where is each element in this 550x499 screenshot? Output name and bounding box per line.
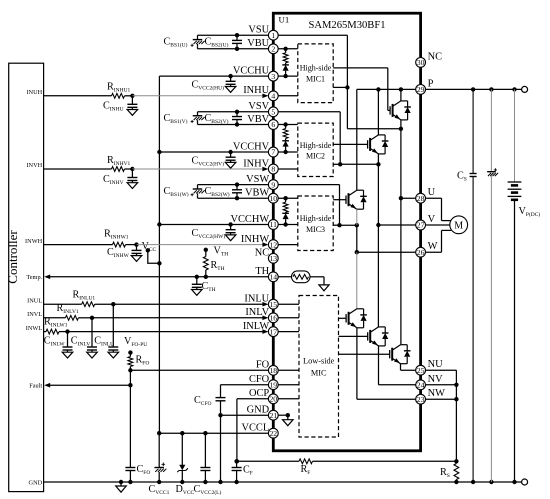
wire FO line bbox=[128, 368, 273, 372]
wire VSU rail bbox=[198, 35, 274, 39]
wire INLU stub into low-side MIC bbox=[273, 303, 299, 305]
pin 10 VBW bbox=[245, 188, 278, 204]
wire VBW rail bbox=[198, 196, 274, 199]
svg-text:INUL: INUL bbox=[27, 297, 42, 304]
pin 24 NV bbox=[416, 374, 443, 390]
svg-text:VBU: VBU bbox=[247, 38, 269, 49]
wire U emitter to pin28 bbox=[399, 120, 421, 345]
wire VBV rail bbox=[198, 122, 274, 124]
resistor R_TH pull-up bbox=[203, 250, 208, 279]
wire OCP line pin20 bbox=[235, 399, 274, 464]
wire VCC vertical rail bbox=[158, 76, 160, 433]
pin 19 CFO bbox=[249, 374, 278, 390]
svg-text:INLV: INLV bbox=[245, 307, 269, 318]
svg-text:INHV: INHV bbox=[243, 158, 269, 169]
svg-text:VSV: VSV bbox=[248, 101, 269, 112]
pin 27 V bbox=[416, 214, 436, 230]
capacitor C_BS2(U) bootstrap bbox=[232, 33, 242, 51]
label C_INLU bbox=[94, 336, 114, 348]
controller GND label bbox=[29, 479, 43, 486]
svg-text:OCP: OCP bbox=[249, 388, 269, 399]
battery V_P(DC) bbox=[508, 89, 522, 482]
svg-text:VCCHV: VCCHV bbox=[233, 141, 270, 152]
low-side driver MIC box bbox=[299, 296, 339, 438]
capacitor C_FO bbox=[125, 385, 135, 482]
wire MIC1 gate drive bbox=[333, 68, 390, 111]
wire INHU stub into MIC1 bbox=[273, 95, 298, 97]
wire NV emitter to pin24 bbox=[379, 346, 421, 385]
wire VCCHW line bbox=[157, 222, 273, 226]
pin 13 NC bbox=[255, 248, 278, 264]
svg-text:NW: NW bbox=[428, 388, 446, 399]
label R_INLU1 bbox=[73, 290, 96, 302]
svg-text:8: 8 bbox=[271, 165, 275, 174]
svg-text:25: 25 bbox=[417, 366, 425, 375]
wire NV line external bbox=[421, 384, 457, 386]
capacitor electrolytic bulk bbox=[487, 89, 498, 482]
power flag V_TH bbox=[204, 246, 229, 258]
wire CFO stub into low-side MIC bbox=[273, 384, 299, 386]
pin 20 OCP bbox=[249, 388, 278, 404]
label C_BS2(W) bbox=[205, 186, 230, 198]
pin 29 P bbox=[416, 78, 434, 94]
ground symbol at GND rail bbox=[116, 482, 127, 492]
wire VBU rail bbox=[198, 46, 274, 49]
resistor R_INLU1 with wire INLU bbox=[44, 302, 269, 307]
capacitor C_INLU filter bbox=[108, 304, 119, 358]
wire INHW stub into MIC3 bbox=[273, 244, 298, 246]
wire NU emitter to pin25 bbox=[401, 364, 421, 371]
wire INHV stub into MIC2 bbox=[273, 168, 298, 170]
svg-text:VSW: VSW bbox=[246, 174, 269, 185]
capacitor C_TH bbox=[192, 275, 203, 296]
wire V output to motor bbox=[421, 224, 450, 226]
svg-text:2: 2 bbox=[271, 45, 275, 54]
thermistor TH internal bbox=[273, 271, 324, 285]
svg-text:INVH: INVH bbox=[26, 162, 42, 169]
resistor R_INHU1 with wire INHU bbox=[44, 93, 269, 98]
svg-text:NV: NV bbox=[428, 374, 444, 385]
label C_BS1(W) bbox=[164, 186, 189, 198]
svg-text:15: 15 bbox=[269, 300, 277, 309]
svg-text:20: 20 bbox=[269, 395, 277, 404]
capacitor C_INLV filter bbox=[87, 318, 98, 358]
wire W emitter to pin26 bbox=[355, 209, 421, 309]
wire OCP stub into low-side MIC bbox=[273, 398, 299, 400]
controller input label Fault bbox=[29, 382, 42, 389]
IGBT high-side U with freewheel diode bbox=[390, 101, 411, 120]
wire P line external bbox=[421, 87, 522, 91]
capacitor C_BS2(W) bootstrap bbox=[232, 182, 242, 200]
capacitor C_BS1(U) electrolytic bootstrap bbox=[191, 40, 205, 47]
svg-text:11: 11 bbox=[270, 220, 278, 229]
svg-text:VCCL: VCCL bbox=[241, 423, 269, 434]
ground symbol thermistor bbox=[319, 285, 329, 291]
pin 12 INHW bbox=[241, 234, 278, 250]
pin 1 VSU bbox=[248, 25, 278, 41]
capacitor C_VCC2(HU) decoupling bbox=[225, 74, 236, 92]
capacitor C_INHV filter bbox=[127, 169, 137, 189]
wire VSV internal net bbox=[273, 112, 380, 167]
svg-text:V: V bbox=[428, 214, 436, 225]
label C_INLV bbox=[71, 336, 90, 348]
svg-text:SAM265M30BF1: SAM265M30BF1 bbox=[308, 20, 385, 31]
IGBT high-side V with freewheel diode bbox=[333, 135, 388, 154]
pin 23 NW bbox=[416, 388, 445, 404]
zener diode D_VCC bbox=[177, 433, 188, 482]
pin 17 INLW bbox=[243, 321, 278, 337]
svg-text:GND: GND bbox=[247, 405, 270, 416]
IC part number SAM265M30BF1 bbox=[308, 20, 385, 31]
svg-text:U1: U1 bbox=[279, 14, 290, 24]
high-side driver MIC1 box bbox=[298, 44, 333, 103]
pin 28 U bbox=[416, 187, 436, 203]
pin 14 TH bbox=[255, 266, 278, 282]
svg-text:Low-side: Low-side bbox=[303, 357, 335, 366]
label C_VCC2(HW) bbox=[192, 228, 226, 240]
capacitor C_S snubber bbox=[470, 89, 477, 482]
controller output label INVH bbox=[26, 162, 42, 169]
wire NW line external bbox=[421, 398, 457, 400]
wire VSU internal net bbox=[273, 35, 403, 131]
svg-text:14: 14 bbox=[269, 273, 277, 282]
label C_TH bbox=[202, 281, 216, 293]
capacitor C_INLW filter bbox=[62, 332, 73, 358]
svg-text:MIC2: MIC2 bbox=[306, 151, 325, 160]
svg-text:Fault: Fault bbox=[29, 382, 42, 389]
label C_CFO bbox=[194, 395, 212, 407]
wire U output to motor bbox=[421, 198, 451, 220]
svg-text:VSU: VSU bbox=[248, 25, 269, 36]
svg-text:24: 24 bbox=[417, 381, 425, 390]
svg-text:22: 22 bbox=[269, 429, 277, 438]
capacitor C_VCC2(HV) decoupling bbox=[225, 150, 236, 168]
label C_BS2(V) bbox=[205, 113, 229, 125]
wire FO stub into low-side MIC bbox=[273, 369, 299, 371]
label C_VCC2(L) bbox=[194, 484, 222, 496]
svg-text:NC: NC bbox=[255, 248, 270, 259]
label C_BS2(U) bbox=[205, 37, 229, 49]
svg-text:6: 6 bbox=[271, 120, 275, 129]
label C_INLW bbox=[44, 336, 66, 348]
svg-text:High-side: High-side bbox=[300, 141, 332, 150]
capacitor C_BS2(V) bootstrap bbox=[232, 110, 242, 127]
svg-text:Controller: Controller bbox=[5, 230, 20, 284]
svg-text:23: 23 bbox=[417, 395, 425, 404]
pin 30 NC bbox=[416, 51, 442, 67]
controller input label Temp. bbox=[26, 274, 42, 281]
pin 22 VCCL bbox=[241, 423, 278, 439]
svg-text:3: 3 bbox=[271, 72, 275, 81]
wire VSV rail bbox=[198, 112, 274, 116]
IGBT low-side W with freewheel diode bbox=[346, 309, 367, 328]
svg-text:13: 13 bbox=[269, 254, 277, 263]
wire INLW stub into low-side MIC bbox=[273, 331, 299, 333]
wire V emitter to pin27 bbox=[376, 154, 420, 327]
svg-text:Temp.: Temp. bbox=[26, 274, 42, 281]
capacitor C_INHW filter bbox=[131, 245, 142, 262]
svg-text:INVL: INVL bbox=[27, 311, 42, 318]
resistor R_INHV1 with wire INHV bbox=[44, 167, 269, 172]
pin 5 VSV bbox=[248, 101, 278, 117]
IC reference designator U1 bbox=[279, 14, 290, 24]
wire low-side gate V bbox=[339, 335, 368, 337]
svg-text:1: 1 bbox=[271, 31, 275, 40]
terminal GND open circle bbox=[522, 479, 528, 485]
terminal P open circle bbox=[522, 86, 528, 92]
svg-text:MIC1: MIC1 bbox=[306, 75, 325, 84]
svg-text:29: 29 bbox=[417, 85, 425, 94]
wire VSW internal net bbox=[273, 185, 359, 228]
controller output label INUH bbox=[26, 89, 42, 96]
svg-text:MIC: MIC bbox=[311, 369, 327, 378]
label R_FO bbox=[136, 355, 150, 367]
wire Fault line bbox=[44, 370, 132, 387]
controller output label INWH bbox=[25, 238, 43, 245]
internal ground pin21 bbox=[273, 413, 293, 426]
motor M bbox=[450, 216, 468, 234]
capacitor C_VCC2(HW) decoupling bbox=[225, 222, 236, 240]
capacitor C_INHU filter bbox=[127, 96, 137, 116]
label R_F bbox=[301, 464, 311, 476]
svg-text:16: 16 bbox=[269, 314, 277, 323]
wire W output to motor bbox=[421, 230, 451, 252]
pin 4 INHU bbox=[243, 85, 278, 101]
label C_BS1(V) bbox=[164, 113, 188, 125]
label C_INHV bbox=[103, 174, 124, 186]
IGBT high-side W with freewheel diode bbox=[333, 190, 367, 209]
wire VCCHV line bbox=[157, 150, 273, 154]
label C_INHU bbox=[103, 101, 124, 113]
capacitor C_BS1(W) electrolytic bootstrap bbox=[191, 189, 205, 196]
capacitor C_F bbox=[232, 459, 242, 482]
svg-text:P: P bbox=[428, 78, 434, 89]
power flag V_CC bbox=[142, 241, 162, 266]
label V_P(DC) bbox=[519, 206, 541, 218]
pin 18 FO bbox=[256, 360, 278, 376]
svg-text:19: 19 bbox=[269, 380, 277, 389]
pin 25 NU bbox=[416, 359, 443, 375]
svg-text:18: 18 bbox=[269, 366, 277, 375]
capacitor C_VCC1 electrolytic bbox=[154, 433, 166, 482]
svg-text:30: 30 bbox=[417, 58, 425, 67]
wire low-side gate U bbox=[339, 353, 390, 355]
svg-text:High-side: High-side bbox=[300, 214, 332, 223]
IGBT low-side U with freewheel diode bbox=[390, 345, 411, 364]
svg-text:INWH: INWH bbox=[25, 238, 43, 245]
wire VSW rail bbox=[198, 185, 274, 189]
label R_S bbox=[440, 467, 450, 479]
wire NW emitter to pin23 bbox=[357, 328, 421, 399]
capacitor C_BS1(V) electrolytic bootstrap bbox=[191, 116, 205, 123]
IC outline U1 SAM265M30BF1 bbox=[273, 13, 420, 451]
label R_INHV1 bbox=[107, 155, 131, 167]
wire VCCL line pin22 bbox=[157, 431, 273, 435]
svg-text:12: 12 bbox=[269, 240, 277, 249]
svg-text:4: 4 bbox=[271, 92, 275, 101]
controller label bbox=[5, 230, 20, 284]
label D_VCC bbox=[176, 484, 195, 496]
pin 26 W bbox=[416, 241, 438, 257]
resistor R_INLV1 with wire INLV bbox=[44, 315, 269, 320]
svg-text:U: U bbox=[428, 187, 436, 198]
wire P rail pin29 internal bbox=[357, 87, 421, 190]
capacitor C_VCC2(L) bbox=[200, 433, 210, 482]
controller box bbox=[9, 63, 44, 491]
svg-text:NU: NU bbox=[428, 359, 444, 370]
wire Temp TH line bbox=[44, 275, 273, 280]
pin 11 VCCHW bbox=[231, 214, 279, 230]
label C_INHW bbox=[107, 247, 130, 259]
pin 21 GND bbox=[247, 405, 279, 421]
svg-text:17: 17 bbox=[269, 327, 277, 336]
pin 6 VBV bbox=[247, 114, 278, 130]
pin 3 VCCHU bbox=[233, 65, 278, 81]
svg-text:INLU: INLU bbox=[244, 294, 269, 305]
wire VCCHU line bbox=[159, 75, 273, 77]
svg-text:FO: FO bbox=[256, 360, 270, 371]
wire low-side gate W bbox=[339, 317, 347, 319]
pin 7 VCCHV bbox=[233, 141, 278, 157]
svg-text:9: 9 bbox=[271, 180, 275, 189]
power flag V_FO-PU bbox=[124, 336, 147, 355]
controller output label INVL bbox=[27, 311, 42, 318]
wire GND line pin21 bbox=[221, 415, 274, 482]
wire INLV stub into low-side MIC bbox=[273, 317, 299, 319]
label R_INLV1 bbox=[57, 303, 79, 315]
label C_VCC2(HV) bbox=[192, 156, 225, 168]
svg-text:5: 5 bbox=[271, 108, 275, 117]
svg-text:INUH: INUH bbox=[26, 89, 42, 96]
label C_FO bbox=[137, 464, 151, 476]
wire NU line external bbox=[421, 370, 459, 461]
bootstrap diode network V (R and D) bbox=[273, 122, 298, 154]
pin 8 INHV bbox=[243, 158, 278, 174]
svg-text:MIC3: MIC3 bbox=[306, 225, 325, 234]
label C_S bbox=[457, 171, 467, 183]
label C_VCC1 bbox=[149, 484, 170, 496]
svg-text:INHU: INHU bbox=[243, 85, 269, 96]
resistor R_F sense filter bbox=[237, 459, 459, 464]
wire GND rail bbox=[44, 480, 522, 484]
svg-text:VCCHW: VCCHW bbox=[231, 214, 270, 225]
pin 2 VBU bbox=[247, 38, 278, 54]
svg-text:21: 21 bbox=[269, 411, 277, 420]
label R_TH bbox=[211, 260, 225, 272]
resistor R_INLW1 with wire INLW bbox=[44, 329, 269, 334]
label C_VCC2(HU) bbox=[192, 80, 225, 92]
controller output label INUL bbox=[27, 297, 42, 304]
resistor R_FO pull-up bbox=[128, 353, 133, 371]
svg-text:27: 27 bbox=[417, 221, 425, 230]
pin 16 INLV bbox=[245, 307, 278, 323]
svg-text:CFO: CFO bbox=[249, 374, 270, 385]
high-side driver MIC3 box bbox=[298, 196, 333, 251]
svg-text:M: M bbox=[454, 221, 463, 232]
wire CFO line with capacitor C_CFO bbox=[216, 385, 274, 418]
svg-text:VBW: VBW bbox=[245, 188, 269, 199]
label R_INLW1 bbox=[44, 317, 68, 329]
high-side driver MIC2 box bbox=[298, 123, 333, 176]
svg-text:GND: GND bbox=[29, 479, 43, 486]
label R_INHU1 bbox=[107, 82, 131, 94]
svg-text:INWL: INWL bbox=[26, 325, 43, 332]
svg-text:High-side: High-side bbox=[300, 64, 332, 73]
IGBT low-side V with freewheel diode bbox=[368, 327, 389, 346]
svg-text:VBV: VBV bbox=[247, 114, 269, 125]
svg-text:INLW: INLW bbox=[243, 321, 270, 332]
resistor R_INHW1 with wire INHW bbox=[44, 242, 269, 247]
svg-text:VCCHU: VCCHU bbox=[233, 65, 270, 76]
shunt resistor R_S bbox=[454, 464, 459, 483]
svg-text:7: 7 bbox=[271, 148, 275, 157]
controller output label INWL bbox=[26, 325, 43, 332]
pin 9 VSW bbox=[246, 174, 278, 190]
svg-text:10: 10 bbox=[269, 194, 277, 203]
svg-text:INHW: INHW bbox=[241, 234, 269, 245]
label R_INHW1 bbox=[104, 229, 129, 241]
svg-text:NC: NC bbox=[428, 51, 443, 62]
bootstrap diode network U (R and D) bbox=[273, 47, 298, 79]
svg-text:W: W bbox=[428, 241, 438, 252]
bootstrap diode network W (R and D) bbox=[273, 196, 298, 227]
svg-text:28: 28 bbox=[417, 194, 425, 203]
svg-text:TH: TH bbox=[255, 266, 269, 277]
label C_BS1(U) bbox=[164, 37, 188, 49]
pin 15 INLU bbox=[244, 294, 278, 310]
svg-text:26: 26 bbox=[417, 248, 425, 257]
label C_F bbox=[243, 465, 253, 477]
